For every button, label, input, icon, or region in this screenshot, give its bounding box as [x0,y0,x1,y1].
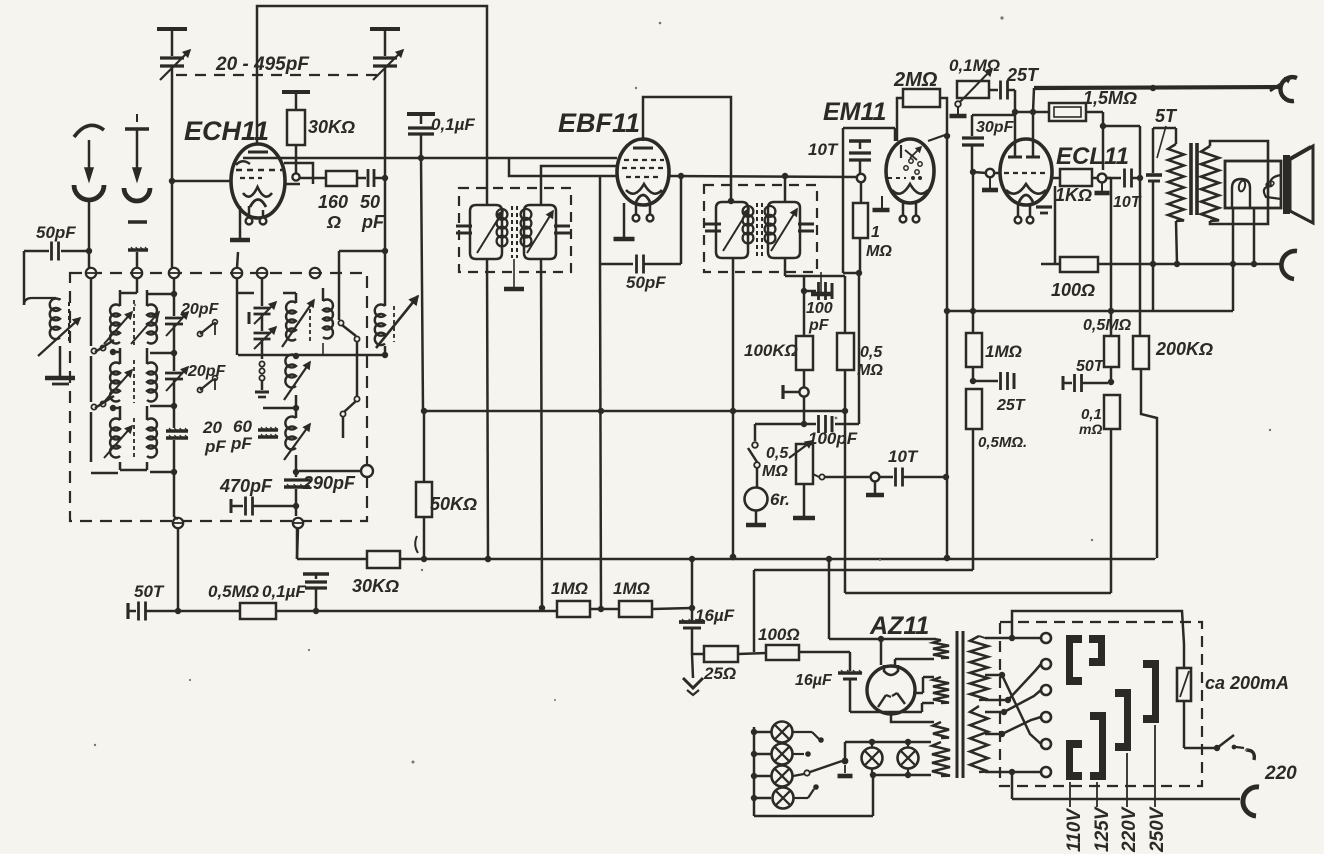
IF1 left tank coil [497,209,508,220]
selector contact 250V [1143,660,1159,723]
svg-text:160: 160 [318,192,348,212]
IF1 left tank arrow [477,211,503,253]
output transformer secondary [1201,146,1219,221]
svg-text:AZ11: AZ11 [869,612,929,640]
wire VC2 junction to switch [382,248,388,254]
svg-text:25T: 25T [996,397,1026,414]
grid wire ECH11 to VC1 [172,180,231,183]
voltage selector dashed box [1000,622,1202,786]
IF1 ground [513,259,515,288]
capacitor 10T coupling [894,468,897,487]
IF2 left tank cap [705,223,721,226]
svg-text:20: 20 [202,418,222,437]
dropper verticals from box bottom [177,528,180,611]
EBF11 cathode drop x600 [600,264,601,609]
mains bottom wire [1011,772,1014,799]
resistor 1K [1052,177,1060,180]
resistor 30K anode load [282,90,310,94]
svg-text:20 - 495pF: 20 - 495pF [215,54,310,75]
mains hook [1243,787,1259,816]
capacitor 470pF [230,499,233,513]
rail y411 [424,410,845,413]
antenna jack 1 [74,125,104,137]
IF1 right tank arrow [527,211,553,253]
B+ rail y311 [947,310,1233,313]
rail y559 main [296,529,299,559]
AZ11 filament lead [913,692,923,695]
wafer circles bottom edge [173,518,183,528]
tube AZ11 U5 [867,666,915,714]
svg-text:1MΩ: 1MΩ [551,579,588,598]
svg-text:pF: pF [808,317,830,334]
ground antenna coil [45,376,75,381]
svg-text:30KΩ: 30KΩ [308,117,355,137]
selector contact 125V lower [1090,712,1106,780]
power transformer secondary zigzags [970,636,988,700]
IF2 left tank loop [716,202,733,258]
speaker magnet pot [1232,179,1250,208]
selector contact 110V upper [1066,635,1082,685]
resistor 100K [796,336,813,370]
capacitor 30pF [972,114,1015,117]
IF2 left tank bottom drop [732,258,735,557]
line end arrow and hook [1270,77,1291,91]
volume pot 0.5M [796,444,813,484]
selector top loop [1012,611,1184,668]
svg-text:100: 100 [806,300,833,317]
mains switch [1183,701,1186,748]
tube EBF11 U2 [617,139,669,205]
IF1 right tank coil [521,209,532,220]
output transformer core [1189,143,1193,215]
dial lamp 4 [754,797,771,800]
resistor 1M grid leak [860,183,863,203]
fuse [1177,668,1191,701]
capacitor 50pF osc grid [367,169,370,187]
svg-text:EM11: EM11 [823,98,886,126]
power transformer winding D [932,742,950,776]
capacitor 100pF no2 [755,423,816,426]
IF1 left tank loop [470,205,487,259]
electrolytic 5T [1146,173,1162,177]
AZ11 anode 2 lead [894,659,897,666]
variable capacitor VC2 (tuning gang section 2) [370,27,400,31]
IF2 right tank cap [798,223,814,226]
svg-text:10T: 10T [808,140,839,159]
svg-text:ca 200mA: ca 200mA [1205,673,1289,693]
anode line y639 [829,638,936,641]
svg-text:MΩ: MΩ [866,243,892,260]
ground arrow [692,654,693,678]
antenna jack 2 (earth) [136,114,138,122]
pilot lamp 1 [862,748,883,769]
x973 divider chain [972,172,975,311]
ECL11 pins [1017,205,1020,216]
AZ11 bottom lead [891,714,934,722]
selector tangle wires [985,675,1041,744]
selector terminals [1041,633,1051,643]
resistor 0.1M tone [1104,395,1120,429]
svg-text:10T: 10T [1113,194,1142,211]
hook speaker return [1281,251,1297,279]
EM11 cathode ground [881,196,883,209]
svg-text:MΩ: MΩ [762,463,788,480]
svg-text:EBF11: EBF11 [558,108,640,138]
detector line y176 [668,176,857,177]
tube EM11 U3 [886,139,934,203]
osc coil row2 [285,354,296,387]
lamp selector contacts [793,731,812,733]
svg-text:1MΩ: 1MΩ [613,579,650,598]
selector contact short upper [1089,635,1105,666]
svg-text:pF: pF [361,212,385,232]
filter switches right [198,332,203,337]
capacitor 0.1uF [407,112,435,116]
lamp rail [753,727,756,816]
osc coil pair row1 [295,293,298,303]
IF2 right tank arrow [771,209,797,251]
ECL11 cathode bar [1036,205,1052,208]
filter coupling links [113,351,120,354]
svg-text:mΩ: mΩ [1079,421,1102,437]
speaker return riser x1111 [1107,177,1111,180]
capacitor 60pF [258,428,278,431]
IF2 left tank coil [743,206,754,217]
IF1 right tank cap [554,225,570,228]
resistor 0.5M tone [1104,336,1119,367]
power transformer core [956,631,959,778]
dial lamp 3 [754,775,771,778]
EBF11 ground [623,203,626,238]
grid cap connector [803,370,806,388]
lamp switch ground [844,765,846,773]
svg-text:30pF: 30pF [976,119,1015,136]
IF1 core [511,206,513,258]
svg-text:pF: pF [230,434,252,453]
IF2 right tank coil [765,206,776,217]
IF2 right tank loop [768,202,785,258]
ECL11 grid line [970,169,976,175]
capacitor 50T [1062,376,1065,390]
switch pole riser [844,742,847,761]
EM11 anode diag [928,135,945,141]
speaker bottom line [1041,263,1282,266]
filter arrows [104,312,132,344]
filter coils column left L2 [119,290,122,306]
band switch unit dashed box [70,273,367,521]
svg-text:1,5MΩ: 1,5MΩ [1083,88,1137,108]
svg-text:25Ω: 25Ω [703,664,736,683]
svg-text:16µF: 16µF [795,672,833,689]
osc rail y355 [238,354,385,357]
resistor 1M no1 [557,601,590,617]
svg-text:1MΩ: 1MΩ [985,342,1022,361]
wire top B+ loop to IF1 [257,6,487,205]
leader lines [1069,782,1071,807]
rail y570 phono [754,569,973,572]
variable capacitor VC1 (tuning gang section 1) [157,27,187,31]
capacitor 10T output [1123,169,1126,188]
power transformer winding B [933,677,949,703]
resistor 0.5M bottom [240,603,276,619]
wire ECH11 osc chain [300,177,326,180]
svg-text:470pF: 470pF [219,476,273,496]
resistor 100 Ohm hum [738,653,766,654]
wire y176 EBF11 third input [509,158,617,176]
resistor 25 Ohm [692,653,704,656]
svg-text:200KΩ: 200KΩ [1155,339,1213,359]
mark j [415,536,418,553]
svg-text:MΩ: MΩ [857,362,883,379]
resistor 1M divider [966,333,982,367]
svg-text:100Ω: 100Ω [1051,280,1095,300]
trimmer 20pF no2 [165,372,183,375]
capacitor 25T [999,81,1002,100]
dial lamp 2 [754,753,771,756]
svg-text:50T: 50T [1076,358,1105,375]
rail end riser [1154,558,1157,559]
svg-text:ECL11: ECL11 [1056,143,1129,170]
grid stopper node [1014,90,1017,157]
power transformer winding A [933,640,949,658]
dashed gang line 20-495pF [176,74,386,76]
pilot lamp rail top [845,741,931,744]
IF1 left tank bottom drop [487,259,488,559]
IF1 right tank bottom drop [541,259,542,608]
pickup 6r [745,488,768,511]
IF1 right tank loop [524,205,541,259]
osc contact stack [259,361,264,366]
capacitor 50T bottom [126,603,129,619]
resistor 50K osc [416,482,432,517]
svg-text:0,5: 0,5 [766,445,789,462]
lamp switch blade [810,761,842,772]
capacitor 0.1uF bottom [303,572,329,575]
corner x845 to y593 [844,411,847,593]
resistor 0.5M divider [966,389,982,429]
filter column A wire [90,279,93,346]
IF1 left tank cap [469,226,471,228]
capacitor 16uF no2 [849,652,852,671]
resistor 1.5M [1015,111,1049,114]
osc trimmer pair x262 [261,279,264,306]
wire AVC riser x859 [858,273,861,424]
selector contact 110V lower [1066,740,1082,780]
side circle wire [299,470,361,473]
svg-text:0,1µF: 0,1µF [262,582,306,601]
EM11 internals [910,147,921,158]
capacitor 20pF fixed [166,429,188,432]
svg-text:0,5: 0,5 [860,344,883,361]
svg-text:50T: 50T [134,582,165,601]
riser x829 [828,559,831,639]
svg-text:50pF: 50pF [626,273,666,292]
EBF11 pins [635,204,638,214]
svg-text:0,5MΩ.: 0,5MΩ. [978,434,1027,451]
padder column x174 wire [173,279,176,316]
resistor 0.5M IF [844,276,847,333]
svg-text:100KΩ: 100KΩ [744,341,798,360]
capacitor 100pF AVC [804,290,816,293]
IF2 ground [820,272,822,293]
svg-text:1: 1 [871,224,880,241]
AZ11 cathode return [921,703,924,712]
wire x1033 drop [1033,88,1034,112]
pilot lamp rail bottom [873,774,931,777]
svg-text:50: 50 [360,192,380,212]
svg-text:20pF: 20pF [187,363,227,380]
capacitor 16uF no1 [691,559,694,608]
AVC divider x804 [803,276,806,336]
grid circle ground [989,178,991,189]
svg-text:30KΩ: 30KΩ [352,576,399,596]
EM11 B wire x947 [946,136,949,477]
svg-text:2MΩ: 2MΩ [893,69,938,91]
IF transformer 1 dashed box [459,188,571,272]
voice coil leads [1232,208,1235,311]
svg-text:110V: 110V [1064,808,1085,852]
svg-text:10T: 10T [888,447,919,466]
ECH11 cathode lead and ground [239,206,242,240]
thick speaker feed line [1034,87,1281,88]
main bus y158 to EBF11 [243,157,617,160]
IF1 secondary top to EBF11 [541,166,617,205]
EBF11 cathode loop and 50pF [599,176,602,264]
speaker cone [1283,155,1290,214]
filter core dashes [133,300,135,345]
resistor 200K [1139,178,1142,336]
svg-text:pF: pF [204,437,226,456]
dial lamp 1 [754,731,771,734]
svg-text:25T: 25T [1006,65,1040,85]
speckles [412,761,415,764]
osc feedback coil L4 [375,304,385,345]
output choke 5T [1153,127,1176,130]
svg-text:0,1MΩ: 0,1MΩ [949,56,1000,75]
pilot lamp 2 [898,748,919,769]
svg-text:0,5MΩ: 0,5MΩ [1083,317,1132,334]
series plates antenna 2 [128,220,147,223]
resistor 100 Ohm cathode [1054,186,1057,264]
svg-text:220V: 220V [1119,806,1140,853]
svg-text:290pF: 290pF [302,473,356,493]
osc coil row3 [295,408,298,418]
speaker right bump [1264,175,1281,199]
antenna coil L1 [23,251,26,305]
svg-text:220: 220 [1264,763,1297,784]
secondary loop around speaker [1210,141,1268,224]
svg-text:100pF: 100pF [808,429,858,448]
IF2 left tank arrow [723,209,749,251]
pot ground [803,484,806,517]
svg-text:ECH11: ECH11 [184,116,269,146]
capacitor 25T no2 [973,380,998,383]
svg-text:5T: 5T [1155,106,1178,126]
IF transformer 2 dashed box [704,185,817,272]
ECH11 anode tab [284,163,313,184]
resistor 30K on rail [367,551,400,568]
resistor 160 Ohm [326,171,357,186]
wafer circles top edge [86,268,96,278]
osc switch chain x345 [338,251,341,320]
speaker frame [1225,161,1281,208]
svg-text:1KΩ: 1KΩ [1055,185,1092,205]
svg-text:16µF: 16µF [695,606,735,625]
tube ECH11 U1 [231,144,285,218]
filter coils column right L3 [146,290,149,306]
lamp bottom loop [754,815,873,818]
pickup node ground [874,482,877,494]
trimmer 20pF no1 [165,317,183,320]
switch S1b [91,404,96,409]
pickup switch [754,424,757,441]
power transformer winding C [933,722,949,738]
svg-text:50KΩ: 50KΩ [430,494,477,514]
svg-text:0,1µF: 0,1µF [431,115,475,134]
svg-text:125V: 125V [1092,806,1113,852]
svg-text:20pF: 20pF [180,301,220,318]
selector contact 220V [1115,689,1131,751]
capacitor 10T EM11 [849,139,871,143]
wafer circle right edge [361,465,373,477]
secondary taps [979,636,985,638]
IF2 right tank bottom node [784,258,787,276]
svg-text:50pF: 50pF [36,223,76,242]
osc column x237 wire [236,279,239,355]
tube ECL11 U4 [1000,139,1052,205]
ECH11 pins [248,206,251,217]
svg-text:6r.: 6r. [770,490,790,509]
EM11 pins [902,201,905,215]
rail y593 [845,592,1111,595]
EBF11 anode top loop [643,97,731,203]
svg-text:Ω: Ω [326,212,341,232]
IF2 core [756,203,758,257]
AVC vertical x=422 [421,158,423,411]
svg-text:250V: 250V [1147,806,1168,853]
switch S1a [91,348,96,353]
capacitor 290pF [295,472,298,477]
resistor 1M no2 [619,601,652,617]
svg-text:100Ω: 100Ω [758,625,800,644]
svg-text:0,5MΩ: 0,5MΩ [208,582,259,601]
